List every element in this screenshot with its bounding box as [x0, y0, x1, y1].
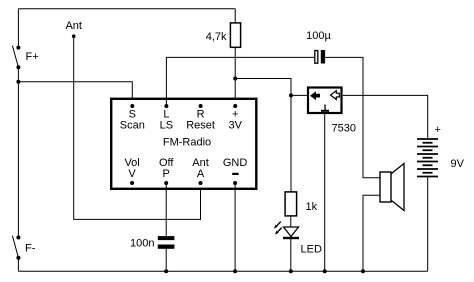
resistor R2 1k	[285, 192, 297, 216]
wire: top supply rail	[18, 8, 235, 10]
wire: Scan branch to pin S	[18, 82, 132, 106]
wire: pin L to coupling capacitor	[166, 57, 314, 106]
wire: 1k to LED	[290, 216, 292, 227]
regulator output arrow (filled)	[310, 91, 320, 100]
svg-text:9V: 9V	[451, 158, 465, 170]
pin GND dot	[233, 181, 237, 185]
capacitor C1 100µ electrolytic	[315, 50, 325, 64]
battery BT1 9V	[417, 139, 438, 177]
wire: left rail top to switch F+	[17, 9, 19, 46]
svg-text:7530: 7530	[332, 123, 356, 135]
junction: 3V node	[233, 77, 237, 81]
junction: left rail / Scan branch	[16, 80, 20, 84]
junction: speaker / bottom rail	[361, 269, 365, 273]
svg-text:F+: F+	[26, 51, 39, 63]
svg-text:3V: 3V	[228, 119, 242, 131]
wire: regulator input to battery +	[343, 95, 428, 139]
label F-	[25, 243, 36, 255]
svg-text:P: P	[163, 168, 170, 180]
regulator input arrow (open)	[331, 91, 340, 100]
junction: regulator output / LED branch	[289, 93, 293, 97]
svg-text:LS: LS	[160, 119, 173, 131]
wire: LED branch down to resistor 1k	[290, 95, 292, 192]
LED D1	[274, 222, 299, 238]
wire: top rail to resistor 4,7k	[234, 9, 236, 23]
wire: switch F- to bottom rail	[17, 258, 19, 272]
wire: 3V node to regulator output	[235, 79, 307, 96]
svg-text:4,7k: 4,7k	[206, 31, 227, 43]
svg-text:F-: F-	[25, 243, 36, 255]
switch F+	[12, 46, 20, 70]
label minus dash under GND	[232, 173, 239, 175]
svg-text:LED: LED	[301, 244, 322, 256]
pin V	[130, 181, 134, 185]
label FM-Radio	[163, 136, 211, 148]
svg-text:Ant: Ant	[65, 20, 82, 32]
IC U1 FM-Radio module	[111, 99, 256, 189]
svg-text:Scan: Scan	[120, 119, 145, 131]
wire: battery minus to bottom rail	[427, 177, 429, 272]
svg-text:100n: 100n	[130, 238, 154, 250]
pin R	[199, 104, 203, 108]
label 7530	[332, 123, 356, 135]
wire: capacitor to speaker top	[325, 57, 380, 177]
svg-text:V: V	[128, 168, 136, 180]
regulator U2 7530 box	[308, 88, 342, 114]
svg-text:Reset: Reset	[186, 119, 215, 131]
label F+	[26, 51, 39, 63]
pin A	[199, 181, 203, 185]
regulator ground symbol	[321, 105, 329, 111]
junction: 100n / bottom rail	[164, 269, 168, 273]
wire: pin GND to bottom rail	[234, 183, 236, 271]
node Ant	[72, 34, 76, 38]
label 100µ	[306, 30, 331, 42]
wire: LED to bottom rail	[290, 239, 292, 271]
svg-text:100µ: 100µ	[306, 30, 331, 42]
junction: LED / bottom rail	[289, 269, 293, 273]
svg-text:FM-Radio: FM-Radio	[163, 136, 211, 148]
label LED	[301, 244, 322, 256]
junction: GND / bottom rail	[233, 269, 237, 273]
pin S	[130, 104, 134, 108]
wire: speaker bottom to bottom rail	[363, 195, 380, 271]
switch F-	[12, 236, 20, 260]
speaker LS	[380, 164, 404, 211]
svg-text:GND: GND	[223, 157, 248, 169]
pin +	[233, 104, 237, 108]
wire: resistor 4,7k to pin +3V	[234, 47, 236, 106]
label + battery	[435, 124, 441, 136]
capacitor C2 100n	[158, 236, 175, 249]
pin L	[164, 104, 168, 108]
label pin names top row	[120, 119, 243, 131]
label pin letters top row	[129, 109, 239, 121]
label Ant	[65, 20, 82, 32]
label 4,7k	[206, 31, 227, 43]
label 100n	[130, 238, 154, 250]
wire: left rail between switches	[17, 67, 19, 237]
svg-text:A: A	[197, 168, 205, 180]
label 9V	[451, 158, 465, 170]
resistor R1 4,7k	[230, 23, 240, 47]
svg-text:+: +	[435, 124, 441, 136]
label pin names bottom row	[124, 157, 247, 169]
wire: capacitor 100n to bottom rail	[165, 249, 167, 272]
wire: pin P to capacitor 100n	[165, 183, 167, 237]
pin P	[164, 181, 168, 185]
wire: regulator ground to bottom rail	[324, 114, 326, 272]
label pin letters bottom row	[128, 168, 204, 180]
wire: antenna to pin A	[74, 36, 201, 219]
svg-text:1k: 1k	[306, 201, 318, 213]
wire: bottom rail	[18, 270, 427, 272]
label 1k	[306, 201, 318, 213]
junction: regulator ground / bottom rail	[323, 269, 327, 273]
